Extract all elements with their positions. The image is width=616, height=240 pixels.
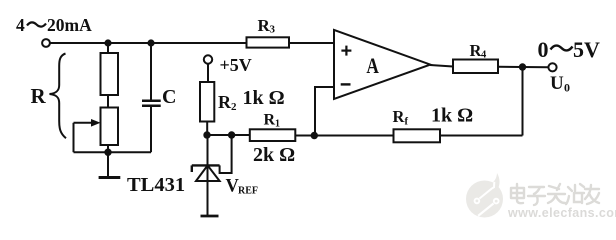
watermark url www.elecfans.com [507, 206, 616, 220]
svg-text:TL431: TL431 [127, 174, 185, 196]
wire junction A down [107, 43, 109, 53]
watermark chinese text 电子发烧友 (approximated strokes) [511, 184, 599, 205]
resistor R4 [453, 41, 498, 73]
svg-text:3: 3 [270, 24, 276, 36]
svg-text:4: 4 [16, 15, 25, 35]
wire feedback rail [296, 135, 523, 137]
svg-text:0: 0 [538, 37, 549, 62]
wire VREF node to R1 [207, 134, 250, 136]
svg-text:1k Ω: 1k Ω [243, 87, 285, 109]
supply terminal +5V [204, 55, 252, 75]
svg-text:20mA: 20mA [47, 15, 92, 35]
resistor R1 [250, 112, 295, 167]
node junction B [147, 39, 154, 46]
node bottom-left junction [104, 149, 111, 156]
wire op-amp output [430, 65, 453, 67]
resistor R3 [247, 16, 290, 48]
svg-text:1k Ω: 1k Ω [431, 105, 473, 127]
op-amp U1 A [334, 30, 430, 99]
output terminal 0~5V [538, 37, 601, 95]
svg-text:2k Ω: 2k Ω [253, 144, 295, 166]
svg-text:www.elecfans.com: www.elecfans.com [507, 206, 616, 220]
svg-text:A: A [366, 53, 379, 78]
svg-text:4: 4 [481, 50, 487, 61]
wire top rail [50, 42, 247, 44]
node R2 bottom junction [203, 131, 210, 138]
svg-text:U: U [550, 73, 564, 94]
node feedback junction [311, 132, 318, 139]
wire R3 to op-amp [289, 42, 334, 44]
wire between R parts [107, 95, 109, 108]
svg-text:+5V: +5V [220, 55, 252, 75]
wire R2 to TL431 [206, 122, 208, 136]
svg-text:2: 2 [231, 101, 237, 113]
svg-text:0: 0 [564, 81, 570, 95]
watermark logo circle [466, 173, 503, 218]
ground TL431 [201, 215, 219, 218]
input terminal 4~20mA [16, 15, 92, 47]
svg-text:R: R [218, 92, 232, 112]
capacitor C [142, 86, 176, 108]
node output junction [519, 63, 526, 70]
node VREF junction [228, 131, 235, 138]
TL431 shunt regulator [127, 135, 258, 215]
resistor R upper part [101, 53, 119, 95]
potentiometer R lower part [74, 108, 119, 153]
ground left [99, 152, 121, 177]
svg-text:1: 1 [275, 119, 280, 130]
resistor Rf [393, 105, 474, 143]
resistor R2 [200, 82, 285, 122]
svg-text:f: f [405, 117, 409, 128]
label R and brace [31, 54, 67, 139]
wire output to feedback [522, 67, 524, 136]
wire inverting input [315, 87, 334, 136]
wire C to bottom rail [150, 106, 152, 152]
wire bottom-left rail [74, 151, 152, 153]
svg-text:5V: 5V [573, 37, 600, 62]
wire pot bottom [107, 145, 109, 152]
svg-text:R: R [264, 112, 276, 129]
wire R4 to output terminal [498, 66, 549, 68]
wire junction B down to C [150, 43, 152, 101]
svg-text:REF: REF [238, 186, 258, 197]
node junction A [104, 39, 111, 46]
svg-text:R: R [31, 84, 47, 108]
svg-text:C: C [162, 86, 176, 108]
wire +5V to R2 [207, 64, 209, 82]
